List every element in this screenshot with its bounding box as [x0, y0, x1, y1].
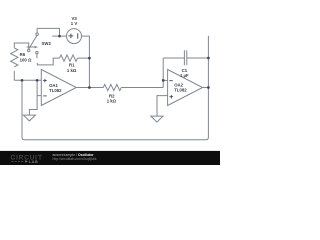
- svg-text:R1: R1: [69, 63, 75, 68]
- svg-text:TL082: TL082: [174, 88, 187, 93]
- svg-text:100 Ω: 100 Ω: [20, 57, 32, 62]
- svg-text:LAB: LAB: [29, 159, 39, 164]
- svg-text:TL082: TL082: [49, 88, 62, 93]
- svg-text:1 µF: 1 µF: [180, 73, 189, 78]
- svg-text:1 kΩ: 1 kΩ: [67, 68, 77, 73]
- svg-text:1 kΩ: 1 kΩ: [107, 98, 117, 103]
- svg-text:R6: R6: [20, 52, 26, 57]
- svg-text:http://circuitlab.com/c2sq6jvb: http://circuitlab.com/c2sq6jvbk: [53, 157, 97, 161]
- svg-text:1 V: 1 V: [71, 21, 78, 26]
- svg-text:SW2: SW2: [42, 41, 52, 46]
